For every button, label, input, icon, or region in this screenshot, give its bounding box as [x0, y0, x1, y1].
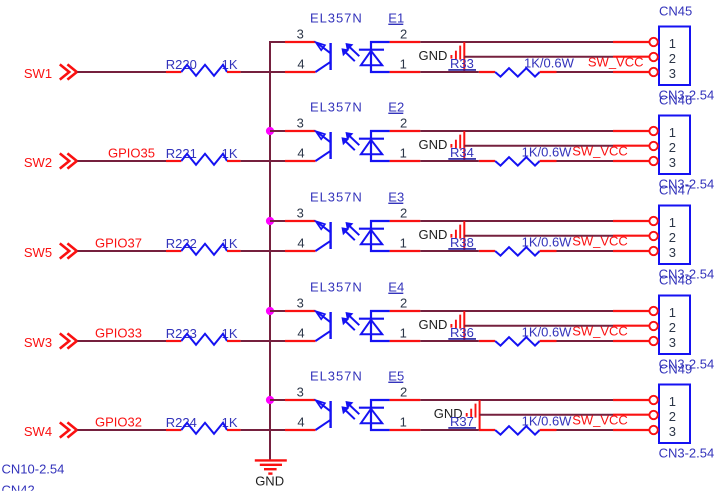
wire opto pin 2 to CN46 pin 1 — [420, 130, 613, 132]
wire R223 to opto pin 4 — [241, 340, 285, 342]
svg-text:CN49: CN49 — [659, 362, 692, 377]
svg-text:1K/0.6W: 1K/0.6W — [522, 325, 573, 340]
wire opto pin 1 to R37 — [420, 429, 479, 431]
svg-text:2: 2 — [669, 51, 676, 66]
svg-text:CN48: CN48 — [659, 273, 692, 288]
svg-text:R37: R37 — [450, 414, 474, 429]
svg-text:1K: 1K — [222, 415, 238, 430]
svg-text:3: 3 — [297, 27, 304, 42]
wire R38 to CN47 pin 3 — [557, 250, 614, 252]
svg-text:SW_VCC: SW_VCC — [588, 54, 644, 69]
svg-text:R36: R36 — [450, 325, 474, 340]
svg-text:SW1: SW1 — [24, 66, 52, 81]
wire R224 to opto pin 4 — [241, 429, 285, 431]
svg-text:4: 4 — [297, 414, 304, 429]
svg-text:3: 3 — [297, 206, 304, 221]
svg-text:SW4: SW4 — [24, 424, 52, 439]
wire GND to CN48 pin 2 — [464, 325, 613, 327]
junction node on GND bus — [266, 127, 274, 135]
svg-text:1K: 1K — [222, 326, 238, 341]
svg-text:2: 2 — [400, 116, 407, 131]
svg-text:GND: GND — [419, 227, 448, 242]
svg-text:2: 2 — [669, 320, 676, 335]
connector CN48 CN3-2.54 — [649, 273, 714, 372]
wire SW1 to R220 — [77, 71, 166, 73]
svg-text:E3: E3 — [388, 190, 404, 205]
wire R33 to CN45 pin 3 — [557, 71, 614, 73]
svg-text:4: 4 — [297, 56, 304, 71]
svg-text:3: 3 — [669, 245, 676, 260]
svg-text:GPIO32: GPIO32 — [95, 414, 142, 429]
connector CN47 CN3-2.54 — [649, 183, 714, 282]
svg-text:R38: R38 — [450, 235, 474, 250]
svg-text:4: 4 — [297, 145, 304, 160]
wire opto pin 2 to CN45 pin 1 — [420, 41, 613, 43]
svg-text:1: 1 — [400, 235, 407, 250]
ground power port GND — [419, 221, 465, 251]
svg-text:GPIO37: GPIO37 — [95, 235, 142, 250]
svg-text:CN46: CN46 — [659, 93, 692, 108]
wire SW4 to R224 — [77, 429, 166, 431]
svg-text:SW_VCC: SW_VCC — [572, 412, 628, 427]
optocoupler E3 EL357N — [285, 190, 420, 252]
svg-text:E2: E2 — [388, 100, 404, 115]
wire SW2 to R221 — [77, 160, 166, 162]
wire GND to CN45 pin 2 — [464, 56, 613, 58]
svg-text:2: 2 — [669, 409, 676, 424]
svg-text:GND: GND — [419, 317, 448, 332]
svg-text:1: 1 — [669, 125, 676, 140]
wire GND to CN49 pin 2 — [480, 414, 613, 416]
svg-text:1: 1 — [400, 56, 407, 71]
port SW1 — [24, 64, 77, 80]
wire R220 to opto pin 4 — [241, 71, 285, 73]
connector CN49 CN3-2.54 — [649, 362, 714, 461]
svg-text:SW_VCC: SW_VCC — [572, 143, 628, 158]
svg-text:1K/0.6W: 1K/0.6W — [522, 414, 573, 429]
svg-text:1: 1 — [669, 215, 676, 230]
svg-text:1K: 1K — [222, 236, 238, 251]
svg-text:R33: R33 — [450, 56, 474, 71]
svg-text:3: 3 — [669, 335, 676, 350]
wire opto pin 1 to R38 — [420, 250, 479, 252]
svg-text:CN10-2.54: CN10-2.54 — [2, 461, 65, 476]
ground power port GND — [419, 131, 465, 161]
wire R37 to CN49 pin 3 — [557, 429, 614, 431]
svg-text:4: 4 — [297, 235, 304, 250]
wire R34 to CN46 pin 3 — [557, 160, 614, 162]
resistor R221 1K — [166, 146, 241, 165]
svg-text:2: 2 — [400, 296, 407, 311]
svg-text:3: 3 — [297, 385, 304, 400]
resistor R224 1K — [166, 415, 241, 434]
wire SW3 to R223 — [77, 340, 166, 342]
junction node on GND bus — [266, 217, 274, 225]
junction node on GND bus — [266, 307, 274, 315]
svg-text:4: 4 — [297, 325, 304, 340]
svg-text:R34: R34 — [450, 145, 474, 160]
svg-text:SW_VCC: SW_VCC — [572, 233, 628, 248]
resistor R223 1K — [166, 326, 241, 345]
svg-text:3: 3 — [669, 424, 676, 439]
ground symbol GND (earth) — [255, 460, 287, 488]
svg-text:EL357N: EL357N — [310, 100, 363, 115]
resistor R36 1K/0.6W — [448, 325, 572, 346]
svg-text:GND: GND — [419, 137, 448, 152]
svg-text:1K/0.6W: 1K/0.6W — [522, 235, 573, 250]
wire opto pin 2 to CN48 pin 1 — [420, 310, 613, 312]
svg-text:SW3: SW3 — [24, 335, 52, 350]
resistor R34 1K/0.6W — [448, 145, 572, 166]
wire opto pin 1 to R36 — [420, 340, 479, 342]
wire bus to pin 3 — [270, 220, 285, 222]
wire R221 to opto pin 4 — [241, 160, 285, 162]
ground power port GND — [434, 400, 480, 430]
svg-text:1: 1 — [669, 36, 676, 51]
svg-text:2: 2 — [400, 27, 407, 42]
wire opto pin 1 to R34 — [420, 160, 479, 162]
svg-text:1: 1 — [400, 325, 407, 340]
port SW3 — [24, 333, 77, 349]
svg-text:E4: E4 — [388, 280, 404, 295]
svg-text:CN47: CN47 — [659, 183, 692, 198]
wire R36 to CN48 pin 3 — [557, 340, 614, 342]
svg-text:1K: 1K — [222, 146, 238, 161]
svg-text:1K: 1K — [222, 57, 238, 72]
optocoupler E1 EL357N — [285, 11, 420, 73]
svg-text:GPIO33: GPIO33 — [95, 325, 142, 340]
resistor R38 1K/0.6W — [448, 235, 572, 256]
svg-text:1: 1 — [669, 394, 676, 409]
wire SW5 to R222 — [77, 250, 166, 252]
svg-text:3: 3 — [669, 66, 676, 81]
svg-text:3: 3 — [669, 155, 676, 170]
svg-text:1: 1 — [669, 305, 676, 320]
svg-text:EL357N: EL357N — [310, 190, 363, 205]
svg-text:CN3-2.54: CN3-2.54 — [659, 445, 715, 460]
resistor R33 1K/0.6W — [448, 56, 574, 77]
junction node on GND bus — [266, 396, 274, 404]
port SW5 — [24, 243, 77, 259]
svg-text:CN45: CN45 — [659, 4, 692, 19]
svg-text:2: 2 — [669, 140, 676, 155]
svg-text:E5: E5 — [388, 369, 404, 384]
connector CN45 CN3-2.54 — [649, 4, 714, 103]
wire opto pin 2 to CN47 pin 1 — [420, 220, 613, 222]
svg-text:EL357N: EL357N — [310, 280, 363, 295]
svg-text:2: 2 — [400, 206, 407, 221]
connector label CN42 (clipped) — [0, 483, 80, 500]
svg-text:GPIO35: GPIO35 — [108, 145, 155, 160]
wire bus to pin 3 — [270, 130, 285, 132]
ground power port GND — [419, 42, 465, 72]
wire GND to CN46 pin 2 — [464, 145, 613, 147]
resistor R220 1K — [166, 57, 241, 76]
svg-text:GND: GND — [419, 48, 448, 63]
svg-text:SW_VCC: SW_VCC — [572, 323, 628, 338]
svg-text:3: 3 — [297, 116, 304, 131]
svg-text:1: 1 — [400, 414, 407, 429]
svg-text:1K/0.6W: 1K/0.6W — [522, 145, 573, 160]
wire GND to CN47 pin 2 — [464, 235, 613, 237]
resistor R37 1K/0.6W — [448, 414, 572, 435]
wire bus corner to pin 3 — [269, 41, 285, 43]
optocoupler E5 EL357N — [285, 369, 420, 431]
wire R222 to opto pin 4 — [241, 250, 285, 252]
svg-text:EL357N: EL357N — [310, 369, 363, 384]
port SW2 — [24, 153, 77, 169]
optocoupler E2 EL357N — [285, 100, 420, 162]
svg-text:3: 3 — [297, 296, 304, 311]
svg-text:2: 2 — [669, 230, 676, 245]
resistor R222 1K — [166, 236, 241, 255]
wire opto pin 1 to R33 — [420, 71, 479, 73]
wire bus to pin 3 — [270, 399, 285, 401]
connector CN46 CN3-2.54 — [649, 93, 714, 192]
optocoupler E4 EL357N — [285, 280, 420, 342]
svg-text:1K/0.6W: 1K/0.6W — [524, 56, 575, 71]
wire bus to pin 3 — [270, 310, 285, 312]
port SW4 — [24, 422, 77, 438]
svg-text:E1: E1 — [388, 11, 404, 26]
svg-text:SW5: SW5 — [24, 245, 52, 260]
svg-text:EL357N: EL357N — [310, 11, 363, 26]
svg-text:GND: GND — [255, 474, 284, 489]
wire opto pin 2 to CN49 pin 1 — [420, 399, 613, 401]
wire vertical GND bus — [269, 41, 271, 460]
svg-text:SW2: SW2 — [24, 155, 52, 170]
ground power port GND — [419, 311, 465, 341]
svg-text:2: 2 — [400, 385, 407, 400]
svg-text:1: 1 — [400, 145, 407, 160]
